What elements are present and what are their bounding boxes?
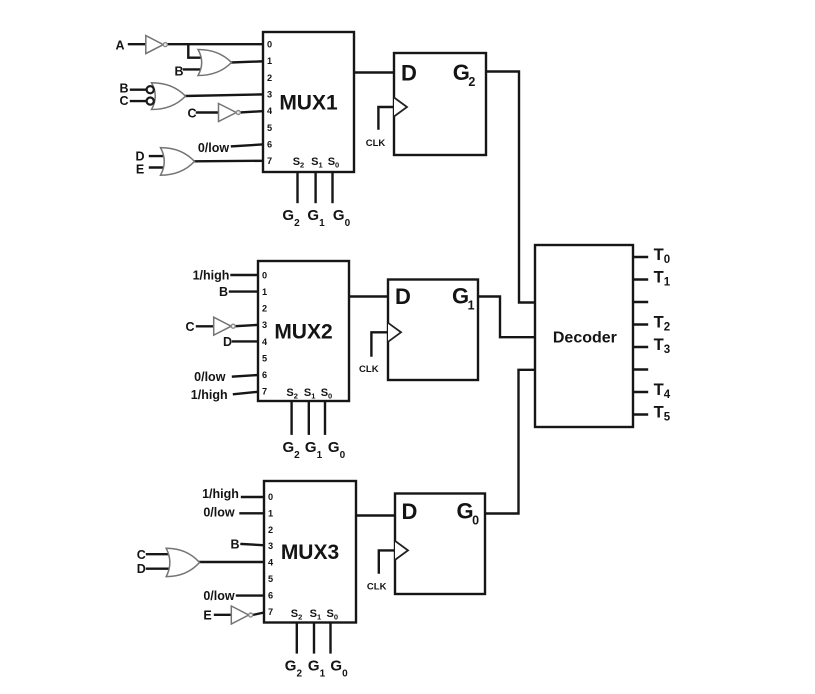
svg-text:D: D <box>402 499 418 524</box>
svg-text:C: C <box>137 548 146 562</box>
svg-text:3: 3 <box>262 320 267 330</box>
svg-text:E: E <box>203 609 211 623</box>
svg-text:2: 2 <box>262 304 267 314</box>
svg-text:D: D <box>135 149 144 163</box>
svg-text:1/high: 1/high <box>191 388 228 402</box>
svg-text:7: 7 <box>267 156 272 166</box>
svg-text:B: B <box>219 285 228 299</box>
svg-text:7: 7 <box>262 387 267 397</box>
svg-text:3: 3 <box>267 90 272 100</box>
svg-text:Decoder: Decoder <box>553 329 617 346</box>
svg-text:6: 6 <box>262 370 267 380</box>
svg-text:C: C <box>187 107 196 121</box>
svg-text:1/high: 1/high <box>202 487 239 501</box>
svg-text:B: B <box>174 64 183 78</box>
svg-text:0/low: 0/low <box>203 506 235 520</box>
svg-text:7: 7 <box>268 607 273 617</box>
svg-text:5: 5 <box>267 123 272 133</box>
svg-text:1: 1 <box>267 56 272 66</box>
svg-text:0: 0 <box>268 492 273 502</box>
svg-text:A: A <box>115 38 124 52</box>
svg-text:C: C <box>119 94 128 108</box>
svg-text:CLK: CLK <box>366 138 386 149</box>
svg-text:0: 0 <box>262 270 267 280</box>
svg-text:0/low: 0/low <box>203 589 235 603</box>
svg-text:B: B <box>230 537 239 551</box>
svg-text:MUX2: MUX2 <box>274 321 332 344</box>
svg-text:0: 0 <box>267 40 272 50</box>
svg-text:5: 5 <box>262 353 267 363</box>
svg-text:C: C <box>185 320 194 334</box>
svg-text:CLK: CLK <box>359 364 379 375</box>
svg-text:D: D <box>223 335 232 349</box>
svg-text:CLK: CLK <box>367 582 387 593</box>
svg-text:4: 4 <box>267 106 273 116</box>
svg-text:4: 4 <box>268 558 274 568</box>
svg-text:6: 6 <box>267 140 272 150</box>
svg-text:1: 1 <box>262 287 267 297</box>
svg-text:D: D <box>401 61 417 86</box>
svg-text:E: E <box>136 162 144 176</box>
svg-text:5: 5 <box>268 574 273 584</box>
svg-text:4: 4 <box>262 337 268 347</box>
svg-text:0/low: 0/low <box>198 141 230 155</box>
svg-text:2: 2 <box>268 525 273 535</box>
svg-text:1: 1 <box>268 508 273 518</box>
svg-text:MUX1: MUX1 <box>279 92 338 115</box>
svg-text:0/low: 0/low <box>194 370 226 384</box>
svg-text:6: 6 <box>268 590 273 600</box>
svg-text:D: D <box>137 562 146 576</box>
svg-text:2: 2 <box>267 73 272 83</box>
svg-text:3: 3 <box>268 541 273 551</box>
svg-text:D: D <box>395 284 411 309</box>
svg-text:MUX3: MUX3 <box>281 541 339 564</box>
svg-text:1/high: 1/high <box>193 269 230 283</box>
